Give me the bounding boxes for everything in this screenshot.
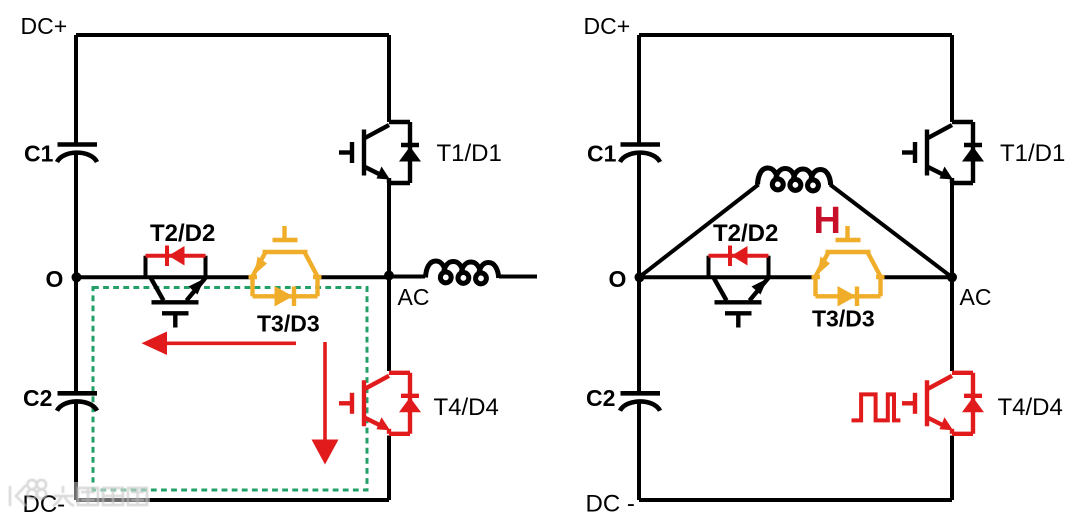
transistor T3 (IGBT, orange, horizontal) bbox=[249, 226, 322, 296]
wire: bottom bus DC- (right) bbox=[639, 498, 952, 502]
diode D1 (right, black) bbox=[964, 143, 982, 147]
diode D1 (black, antiparallel) bbox=[401, 143, 419, 147]
capacitor C2 (right) bbox=[620, 393, 660, 411]
wire: T3 to AC (right) bbox=[880, 275, 952, 279]
wire: diagonal inductor to AC bbox=[830, 185, 952, 278]
transistor T4 (right, IGBT red) bbox=[902, 373, 973, 434]
svg-text:T2/D2: T2/D2 bbox=[150, 220, 215, 247]
wire: bottom bus DC- bbox=[76, 498, 389, 502]
capacitor C1 (right) bbox=[620, 145, 660, 163]
transistor T1 (IGBT, black) bbox=[339, 122, 410, 183]
capacitor C1 bbox=[57, 145, 97, 163]
svg-text:T3/D3: T3/D3 bbox=[812, 306, 875, 332]
svg-text:C2: C2 bbox=[586, 385, 615, 411]
wire: AC node to T4 bbox=[387, 275, 391, 371]
diode D2 (red, in box above T2) bbox=[146, 256, 206, 278]
svg-text:T3/D3: T3/D3 bbox=[257, 311, 320, 337]
wire: T4 emitter to bottom bus bbox=[387, 436, 391, 501]
gate drive square wave (red) bbox=[852, 394, 901, 420]
current arrow (horizontal, pointing left) bbox=[163, 341, 296, 345]
wire: T1 emitter to AC (right) bbox=[950, 183, 954, 277]
wire: O to T3 (right) bbox=[639, 275, 816, 279]
wire: diagonal O to inductor bbox=[639, 185, 759, 278]
current arrow (vertical, pointing down) bbox=[323, 342, 327, 443]
transistor T3 (right, IGBT orange) bbox=[812, 226, 885, 296]
wire: left rail middle (C1 to C2) bbox=[74, 154, 78, 394]
svg-text:DC+: DC+ bbox=[21, 13, 68, 39]
wire: AC output lead bbox=[389, 275, 425, 279]
node O (right, junction dot) bbox=[635, 272, 645, 282]
wire: left rail lower (right) bbox=[637, 402, 641, 500]
wire: AC to T4 (right) bbox=[950, 275, 954, 371]
svg-text:AC: AC bbox=[398, 284, 430, 310]
node O (junction dot) bbox=[72, 272, 82, 282]
watermark underlay (translucent white) bbox=[4, 477, 150, 510]
wire: left rail middle (right) bbox=[637, 154, 641, 394]
svg-text:DC -: DC - bbox=[586, 491, 635, 515]
svg-text:H: H bbox=[814, 200, 841, 242]
diode D4 (red, antiparallel) bbox=[401, 394, 419, 398]
svg-text:O: O bbox=[46, 266, 64, 292]
wire: T1 emitter to AC node bbox=[387, 183, 391, 277]
wire: right rail top (right) bbox=[950, 35, 954, 122]
svg-text:AC: AC bbox=[960, 284, 992, 310]
svg-text:T4/D4: T4/D4 bbox=[434, 394, 499, 421]
node AC (junction dot) bbox=[384, 271, 394, 281]
wire: left rail lower (C2 to DC-) bbox=[74, 402, 78, 500]
transistor T4 (IGBT, red) bbox=[339, 373, 410, 434]
svg-text:T1/D1: T1/D1 bbox=[437, 140, 502, 167]
svg-text:DC-: DC- bbox=[23, 491, 66, 515]
wire: top bus DC+ bbox=[76, 33, 389, 37]
wire: left rail upper (right) bbox=[637, 35, 641, 145]
svg-text:DC+: DC+ bbox=[584, 13, 631, 39]
inductor L (boost coil, right) bbox=[758, 168, 831, 191]
diode D3 (right, orange) bbox=[838, 286, 857, 307]
svg-text:O: O bbox=[609, 266, 627, 292]
wire: top bus DC+ (right) bbox=[639, 33, 952, 37]
svg-text:C2: C2 bbox=[23, 385, 52, 411]
wire: T3 to AC bbox=[317, 275, 389, 279]
wire: left rail upper (DC+ to C1) bbox=[74, 35, 78, 145]
diode D2 (right, red in box) bbox=[709, 256, 769, 278]
svg-text:T4/D4: T4/D4 bbox=[998, 394, 1063, 421]
wire: right rail top (DC+ to T1) bbox=[387, 35, 391, 122]
watermark (semi-transparent logo) bbox=[10, 480, 147, 506]
svg-text:T1/D1: T1/D1 bbox=[1000, 140, 1065, 167]
diode D4 (right, red) bbox=[964, 394, 982, 398]
transistor T2 (right, black) bbox=[714, 278, 769, 328]
wire: T4 emitter to bottom bus (right) bbox=[950, 436, 954, 501]
wire: after inductor bbox=[499, 275, 537, 279]
wire: O to T3 bbox=[76, 275, 253, 279]
svg-text:C1: C1 bbox=[587, 141, 617, 167]
diode D3 (orange, on lower branch) bbox=[275, 286, 294, 307]
node AC (right, junction dot) bbox=[947, 272, 957, 282]
transistor T1 (right, IGBT black) bbox=[902, 122, 973, 183]
svg-text:T2/D2: T2/D2 bbox=[713, 220, 778, 247]
inductor L (AC filter coil) bbox=[426, 261, 499, 284]
commutation loop (green dashed box) bbox=[93, 288, 367, 491]
capacitor C2 bbox=[57, 393, 97, 411]
transistor T2 (black) bbox=[151, 278, 206, 328]
svg-text:C1: C1 bbox=[24, 141, 54, 167]
